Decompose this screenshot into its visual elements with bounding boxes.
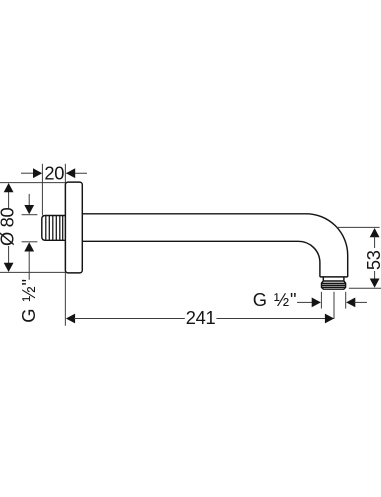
svg-text:G ½": G ½" — [253, 289, 298, 310]
dim 241 line right part with arrow — [216, 318, 326, 320]
dim 20 right arrow — [66, 172, 87, 174]
dim 53 top extension line — [336, 226, 379, 228]
dia80 bottom extension line — [0, 271, 66, 273]
wall thread ribs — [45, 216, 47, 241]
wall plate — [65, 182, 82, 273]
svg-text:G ½": G ½" — [18, 278, 39, 323]
svg-text:241: 241 — [186, 307, 216, 328]
outlet thread — [322, 281, 346, 289]
dim 53 bottom extension line — [349, 287, 381, 289]
arm inner edge — [82, 241, 320, 277]
dim 20 left arrow — [21, 172, 34, 174]
wall extension line — [64, 164, 66, 326]
outlet thread left extension line — [320, 292, 322, 309]
outlet thread right extension line — [345, 292, 347, 309]
svg-text:20: 20 — [44, 162, 64, 183]
dia80 top extension line — [0, 182, 66, 184]
outlet collar — [322, 277, 324, 281]
svg-text:53: 53 — [363, 250, 381, 270]
arm outer edge — [82, 214, 347, 277]
G 1/2 left arrow — [297, 301, 313, 303]
dim 53 line with arrows — [370, 228, 380, 237]
outlet axis extension line — [333, 292, 335, 319]
dim 241 line left part with arrow — [66, 314, 75, 324]
wall thread small dim: lower arrow — [22, 241, 38, 243]
thread-end extension line (left of dim 20) — [41, 164, 43, 215]
outlet shoulder — [320, 276, 348, 278]
wall thread small dim: upper arrow — [28, 194, 30, 206]
svg-text:Ø 80: Ø 80 — [0, 207, 18, 246]
dia80 dimension line with arrows — [8, 192, 10, 209]
G 1/2 right arrow — [346, 298, 355, 308]
wall thread body — [42, 216, 66, 241]
